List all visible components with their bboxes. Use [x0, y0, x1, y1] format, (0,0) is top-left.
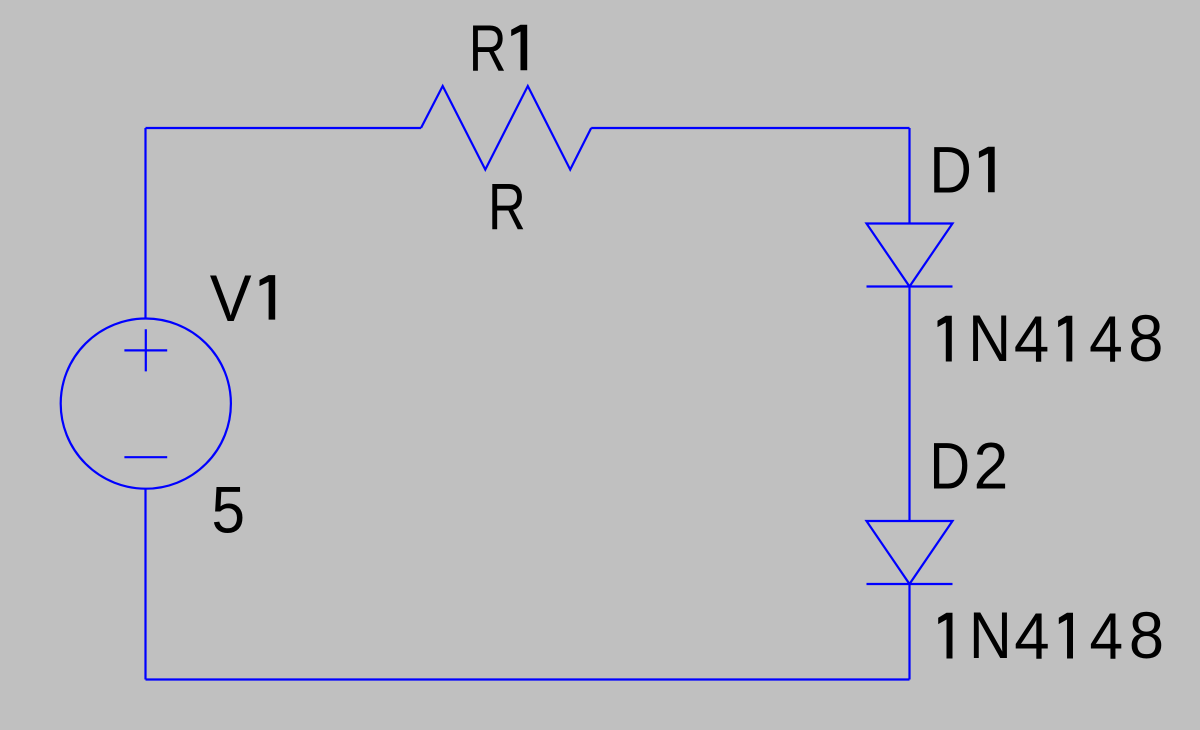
wire middle-right vertical: [908, 287, 910, 522]
label diode D1 value text 1N4148: [938, 301, 1164, 376]
diode D1 triangle: [867, 224, 953, 287]
wire bottom horizontal: [146, 678, 910, 680]
svg-text:4: 4: [1014, 599, 1049, 673]
svg-text:V: V: [210, 261, 252, 335]
svg-text:4: 4: [1089, 302, 1123, 376]
wire top-left horizontal: [146, 127, 422, 129]
svg-text:R: R: [469, 11, 507, 85]
svg-text:2: 2: [974, 429, 1009, 503]
diode D1 cathode bar: [867, 285, 953, 287]
label resistor designator text R1: [469, 11, 527, 85]
label voltage source value text 5: [212, 473, 246, 547]
V1 minus sign: [124, 456, 167, 458]
svg-text:4: 4: [1090, 599, 1124, 673]
wire left upper vertical: [144, 128, 146, 319]
svg-text:R: R: [488, 170, 526, 244]
resistor R1: [421, 86, 591, 170]
svg-text:4: 4: [1014, 302, 1049, 376]
label voltage source designator text V1: [210, 261, 275, 335]
svg-text:D: D: [929, 133, 972, 207]
wire left lower vertical: [144, 489, 146, 680]
wire right upper vertical: [908, 128, 910, 224]
label resistor value text R: [488, 170, 526, 244]
label diode D1 designator text: [929, 133, 994, 207]
label diode D2 designator text: [929, 429, 1008, 503]
svg-text:8: 8: [1129, 598, 1164, 672]
wire right lower vertical: [908, 584, 910, 680]
voltage source V1 circle: [61, 319, 231, 489]
svg-text:N: N: [969, 598, 1012, 672]
svg-text:8: 8: [1128, 301, 1163, 375]
svg-text:N: N: [968, 301, 1011, 375]
svg-text:5: 5: [212, 473, 246, 547]
label diode D2 value text 1N4148: [938, 598, 1164, 673]
diode D2 cathode bar: [867, 583, 953, 585]
wire top-right horizontal: [591, 127, 909, 129]
diode D2 triangle: [867, 521, 953, 584]
svg-text:D: D: [929, 429, 970, 503]
V1 plus sign: [124, 329, 167, 371]
